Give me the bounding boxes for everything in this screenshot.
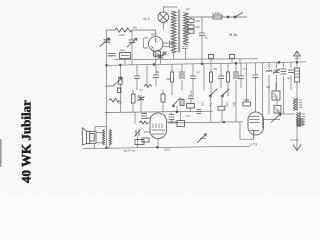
- svg-text:0,1: 0,1: [243, 67, 247, 71]
- svg-text:0,1: 0,1: [186, 114, 190, 118]
- svg-text:≈6,3: ≈6,3: [143, 17, 150, 21]
- svg-text:-70Ω: -70Ω: [118, 33, 125, 37]
- svg-text:4W: 4W: [196, 19, 201, 23]
- svg-text:1,4kΩ: 1,4kΩ: [212, 11, 221, 15]
- svg-text:4W: 4W: [196, 25, 201, 29]
- svg-text:ψμ3× 4μ: ψμ3× 4μ: [124, 148, 136, 152]
- svg-text:4W: 4W: [146, 116, 151, 120]
- svg-text:0,1: 0,1: [196, 70, 200, 74]
- svg-text:UW8: UW8: [105, 84, 112, 88]
- svg-text:2W: 2W: [166, 77, 171, 81]
- svg-text:400: 400: [120, 49, 125, 53]
- svg-text:101: 101: [201, 101, 205, 106]
- svg-text:M 81: M 81: [229, 32, 239, 37]
- svg-text:U.Y3: U.Y3: [250, 142, 258, 146]
- svg-text:50: 50: [156, 70, 160, 74]
- svg-text:4μ: 4μ: [205, 36, 209, 40]
- svg-text:AZ7: AZ7: [151, 32, 157, 36]
- svg-text:415: 415: [225, 101, 229, 106]
- svg-text:4W: 4W: [133, 26, 138, 30]
- svg-text:40 WK Jubilar: 40 WK Jubilar: [19, 100, 34, 183]
- svg-text:500: 500: [232, 101, 236, 106]
- svg-text:1M: 1M: [118, 101, 123, 105]
- svg-text:2W: 2W: [266, 85, 271, 89]
- svg-text:DNS: DNS: [244, 98, 250, 102]
- svg-text:0,1: 0,1: [139, 88, 143, 92]
- svg-text:4μ: 4μ: [287, 76, 291, 80]
- svg-text:4W: 4W: [213, 67, 218, 71]
- svg-text:U72: U72: [164, 148, 170, 152]
